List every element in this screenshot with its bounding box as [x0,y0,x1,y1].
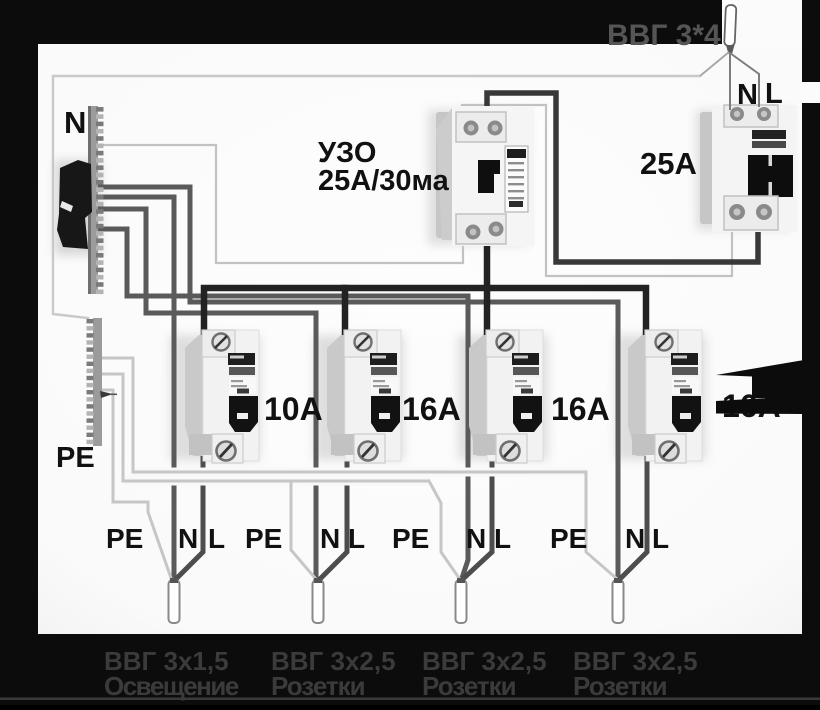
wire PE4: PE bus exit and riser [101,358,133,472]
outgoing cable 4 (sockets) end sleeve [613,580,624,623]
wire N4 part1: N bus to riser [100,187,190,302]
svg-text:16А: 16А [551,391,610,427]
svg-text:10А: 10А [264,391,323,427]
wire PE2: branch drop to cable 2 [291,481,315,578]
svg-text:Розетки: Розетки [271,671,365,701]
supply cable conductor L to 25A input [730,53,759,107]
wire L drop to breaker 2 [342,288,349,332]
breaker QF5 16A [628,330,702,463]
wire L2: breaker 2 output to cable 2 [321,458,347,578]
wire PE3: PE bus exit and riser [101,374,123,481]
wire L bus horizontal with end drops to breaker 1 and 4 [204,288,646,332]
wire N1: N bus down to cable 1 [100,197,174,578]
svg-text:Розетки: Розетки [422,671,516,701]
UZO rating label plate [505,146,528,212]
wire N4 part2: across and down to cable 4 [190,302,618,578]
black arrow annotation pointing at breaker 4 (head wedge) [716,361,803,391]
svg-text:PE: PE [550,523,587,554]
svg-text:N: N [737,79,758,111]
wire N3 part1: N bus to riser [100,229,127,296]
wire N3 part2: across and down to cable 3 [127,296,468,578]
breaker QF3 16A [327,330,401,463]
outgoing cable 1 (lighting) end sleeve [169,580,180,623]
breaker QF2 10A [185,330,259,463]
svg-text:16А: 16А [402,391,461,427]
wire PE3 horizontal run [123,477,429,486]
PE bus bar (earth terminal strip) [87,318,103,446]
svg-text:L: L [652,523,669,554]
svg-text:N: N [64,105,86,140]
RCD UZO 25A/30mA device [436,106,534,246]
wire N: 25A breaker output to UZO input (thin) [462,105,732,276]
supply cable VVG 3x4 entering from top [724,5,736,46]
svg-text:N: N [466,523,486,554]
breaker QF4 16A [469,330,543,463]
svg-text:L: L [348,523,365,554]
svg-text:Розетки: Розетки [573,671,667,701]
wire PE4: drop to cable 4 [586,472,616,578]
svg-text:ВВГ 3*4: ВВГ 3*4 [607,19,721,52]
outgoing cable 3 (sockets) end sleeve [456,580,467,623]
bottom hairline [0,698,820,701]
wire PE feed run: top edge to PE bus (light gray) [53,76,700,318]
wire PE3: drop to cable 3 [429,481,459,578]
svg-text:25А: 25А [640,146,697,181]
wire PE1: PE bus to cable 1 [101,390,171,578]
circuit breaker QF1 25A two-pole [700,105,797,232]
wire L1: breaker 1 output to cable 1 [177,458,203,578]
svg-text:L: L [208,523,225,554]
svg-text:PE: PE [56,442,95,474]
wire N: UZO output to N bus (thin) [102,145,463,263]
white top-right corner area around supply cable [722,0,802,46]
black DIN clip on N bus [57,160,92,249]
wire L3: breaker 3 output to cable 3 [464,458,492,578]
wire N2 part1: N bus to riser [100,209,146,313]
supply cable crimp tip [726,45,735,54]
wire L4: breaker 4 output to cable 4 [621,458,647,578]
25A breaker toggles [748,155,793,197]
white notch at right edge behind L label [799,82,820,103]
svg-text:PE: PE [245,523,282,554]
wire N2 part2: across and down to cable 2 [146,313,316,578]
svg-text:PE: PE [106,523,143,554]
svg-text:25А/30ма: 25А/30ма [318,165,450,197]
wire L: 25A breaker output loop to UZO input [487,93,758,262]
supply cable conductor N to 25A input [729,53,731,110]
supply cable conductor PE diagonal [700,52,729,76]
small pointer mark at PE bus [100,391,113,398]
svg-text:N: N [178,523,198,554]
N bus bar (neutral terminal strip) [88,106,104,294]
white mounting panel [38,44,802,634]
soft device shadows [55,110,791,460]
wire L: UZO output down to breaker 3 [484,240,491,332]
svg-text:L: L [765,78,783,110]
UZO toggle lever [478,160,500,193]
svg-text:L: L [494,523,511,554]
black arrow annotation (right connector block) [752,386,803,398]
svg-text:PE: PE [392,523,429,554]
black arrow annotation shaft (lower band) [716,396,803,414]
outgoing cable 2 (sockets) end sleeve [313,580,324,623]
wire PE4 horizontal run [133,468,586,477]
svg-text:Освещение: Освещение [104,671,239,701]
svg-text:N: N [320,523,340,554]
svg-text:N: N [625,523,645,554]
